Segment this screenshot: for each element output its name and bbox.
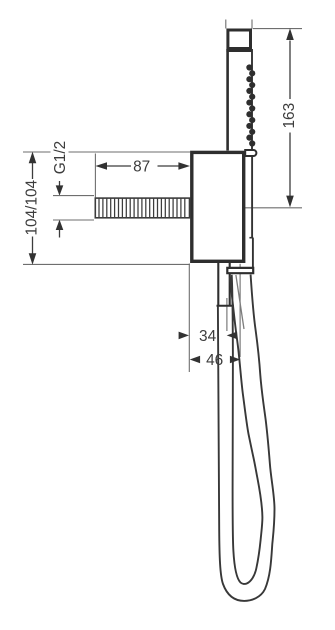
dimension 104/104 top arrow	[29, 152, 37, 164]
handle step tick	[249, 237, 253, 239]
G1/2 extension lines	[53, 196, 94, 220]
pipe G1/2 hatched body	[95, 198, 189, 218]
hand shower handle left edge	[226, 49, 229, 151]
dimension 87 line	[106, 165, 180, 167]
wall unit square	[192, 152, 244, 261]
hand shower handle right edge	[251, 49, 253, 150]
spray face dots	[246, 64, 255, 146]
handle right edge behind holder (lower)	[252, 238, 254, 267]
dimension G1/2 upper stem and down arrow	[59, 181, 61, 186]
handle bottom cap	[227, 268, 253, 273]
dimension 87 left arrow	[95, 162, 107, 170]
dimension 163 top arrow	[286, 28, 294, 40]
hose inner outline	[230, 275, 263, 584]
163 extension top line	[253, 28, 302, 30]
svg-text:87: 87	[133, 158, 150, 175]
dimension 46 right arrow (inside, pointing right)	[230, 356, 240, 364]
extension line top of 104/104 (y=152)	[23, 151, 190, 153]
outlet connector bottom cap	[217, 305, 234, 307]
extension line bottom of 104/104 (y=264.3)	[23, 263, 190, 265]
dimension 163 vertical line	[289, 41, 291, 197]
hand shower: extension stubs above head	[226, 20, 252, 29]
dimension 46 left arrow (inside, pointing left)	[190, 356, 200, 364]
dimension 163 bottom arrow	[286, 196, 294, 208]
hose nut edge (faint short line)	[236, 275, 244, 329]
outlet connector below square	[218, 262, 229, 305]
handle right edge behind holder (upper)	[251, 156, 253, 237]
dimension G1/2 lower up arrow and stem	[56, 220, 64, 230]
dimension 34 left arrow (outside, pointing right)	[179, 332, 189, 340]
svg-text:163: 163	[281, 103, 298, 129]
46 right extension line	[239, 264, 241, 357]
dimension 34 right arrow (outside, pointing left)	[227, 332, 237, 340]
svg-text:104/104: 104/104	[23, 179, 40, 235]
svg-text:46: 46	[206, 352, 223, 369]
34/46 left extension line	[188, 264, 190, 373]
34 right extension line	[226, 298, 228, 331]
dimension 87 right arrow	[178, 162, 190, 170]
svg-text:34: 34	[199, 328, 217, 345]
svg-text:G1/2: G1/2	[52, 141, 69, 174]
holder clip	[245, 150, 256, 156]
hand shower head bottom divider	[226, 49, 252, 52]
hand shower head	[228, 30, 251, 49]
163 extension bottom line	[233, 207, 302, 209]
hose outer outline	[218, 275, 275, 601]
87 extension line (left, x=95.4)	[94, 154, 96, 198]
dimension 104/104 vertical line	[32, 163, 34, 254]
dimension 104/104 bottom arrow	[29, 253, 37, 265]
